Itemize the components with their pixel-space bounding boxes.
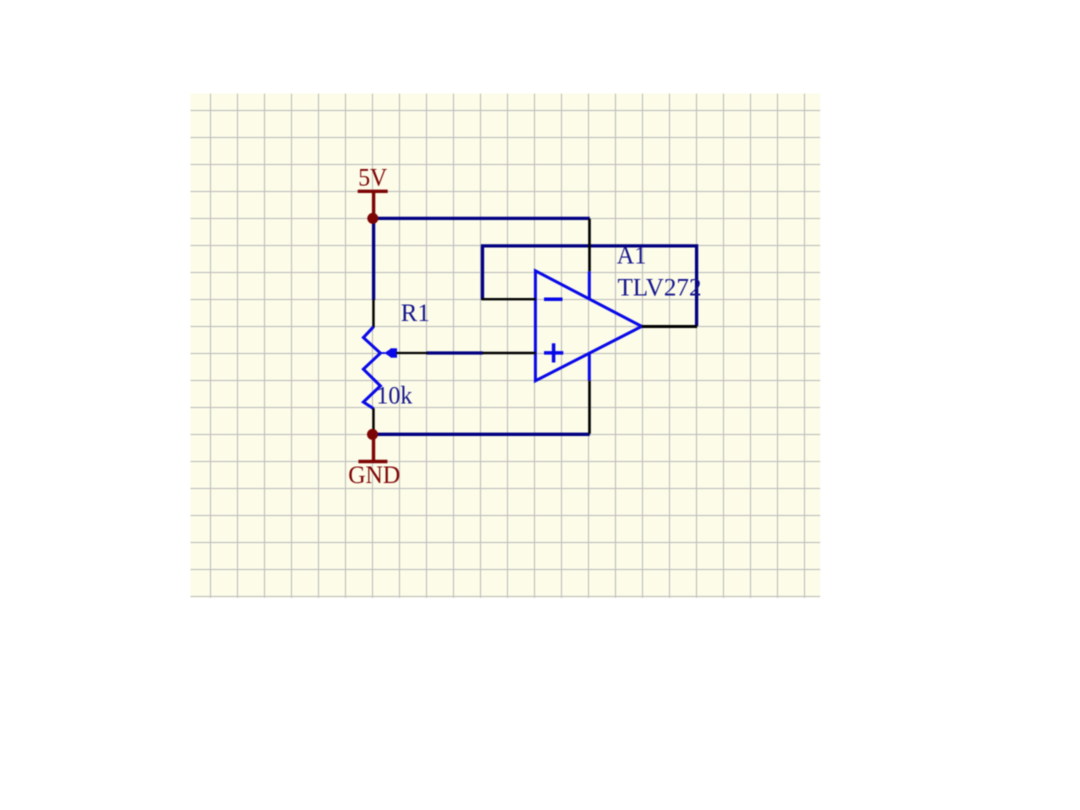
op-amp designator label A1	[617, 243, 647, 270]
svg-text:5V: 5V	[358, 164, 387, 191]
op-amp A1 triangle body	[535, 271, 641, 381]
wire 5V node down to R1	[372, 218, 375, 300]
op-amp non-inverting input pin	[483, 352, 536, 354]
op-amp output pin	[642, 325, 698, 328]
resistor R1 pin 1	[372, 300, 374, 328]
op-amp plus symbol	[544, 343, 563, 362]
op-amp V- power pin	[588, 353, 591, 434]
svg-text:A1: A1	[617, 243, 647, 270]
op-amp inverting input pin	[481, 298, 535, 300]
resistor R1 value label 10k	[376, 382, 412, 409]
op-amp V+ power pin	[588, 219, 591, 300]
resistor R1 zigzag body	[363, 327, 380, 409]
junction dot at GND node	[367, 429, 378, 440]
power 5V label text	[358, 164, 387, 191]
wire feedback: output to inverting input	[483, 246, 697, 326]
resistor R1 pin 2	[372, 408, 374, 432]
wire 5V node to op-amp V+ (horizontal)	[373, 217, 590, 220]
svg-text:10k: 10k	[376, 382, 412, 409]
resistor R1 wiper pin	[397, 352, 428, 354]
power 5V bar symbol	[358, 191, 388, 215]
svg-text:R1: R1	[401, 300, 430, 327]
ground label text	[348, 462, 400, 489]
wire GND node to op-amp V- (horizontal)	[373, 433, 590, 436]
op-amp part label TLV272	[618, 275, 702, 302]
resistor R1 designator label	[401, 300, 430, 327]
junction dot at 5V node	[367, 213, 378, 224]
svg-text:TLV272: TLV272	[618, 275, 702, 302]
op-amp minus symbol	[544, 297, 563, 301]
wire wiper to op-amp + input	[427, 351, 484, 354]
resistor R1 wiper arrow	[380, 348, 397, 357]
ground symbol stem	[358, 434, 387, 461]
svg-text:GND: GND	[348, 462, 400, 489]
schematic sheet background	[191, 94, 821, 598]
